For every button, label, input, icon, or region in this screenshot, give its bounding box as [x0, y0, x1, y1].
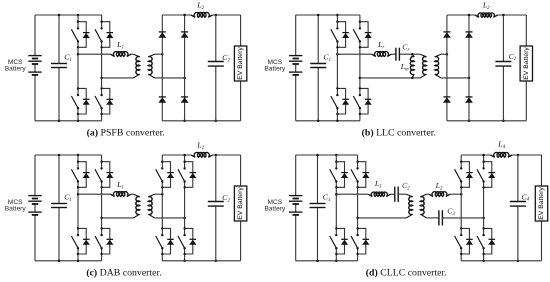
node (a) top rail junctions [58, 14, 80, 17]
node (b) rail junctions [317, 14, 339, 122]
node (c) leg1 midpoint [77, 193, 80, 196]
node (b) rectifier input nodes [446, 53, 471, 79]
label L1 (d) [374, 179, 382, 189]
capacitor C1 (c) [51, 155, 67, 261]
wire (c) top rail primary [35, 154, 102, 156]
switch (c) secondary leg1 bottom [156, 227, 174, 255]
diode (b) D3 [443, 97, 451, 103]
label C2 (d) [402, 181, 410, 191]
inductor L2 (c) [191, 152, 213, 157]
battery MCS (d) [289, 155, 302, 261]
node (a) leg1 midpoint [77, 53, 80, 56]
svg-text:Battery: Battery [264, 206, 286, 213]
node (d) rail junctions [316, 154, 337, 262]
label L2 (b) [482, 0, 490, 10]
switch (a) leg2 bottom [95, 87, 113, 115]
caption (d) [366, 268, 447, 279]
label MCS Battery (c) [5, 199, 27, 213]
diode (b) D2 [465, 32, 473, 38]
wire (b) leg1 [336, 15, 338, 121]
wire (a) top rail secondary [162, 14, 240, 16]
wire (b) leg2 [359, 15, 361, 121]
wire (b) Cr to transformer [399, 53, 420, 55]
wire (b) diode leg1 [446, 15, 448, 121]
wire (d) C3 to bridge [442, 217, 483, 219]
transformer T1 (a) primary winding [134, 54, 140, 78]
svg-text:(c) DAB converter.: (c) DAB converter. [86, 268, 161, 279]
label Cr (b) [402, 42, 409, 52]
wire (b) tank bottom lead [360, 77, 420, 79]
svg-text:EV Battery: EV Battery [237, 187, 244, 220]
capacitor C1 (a) [51, 15, 67, 121]
wire (d) Lr2 to bridge [450, 193, 461, 195]
node (b) Lm junctions [411, 53, 414, 79]
label MCS Battery (b) [264, 59, 286, 73]
inductor Lm (b) [410, 54, 414, 78]
wire (c) secondary bottom lead [155, 217, 185, 219]
svg-text:EV Battery: EV Battery [523, 47, 530, 80]
switch (b) leg1 bottom [331, 87, 349, 115]
node (c) secondary rail junctions [183, 154, 217, 262]
wire (a) diode leg1 [161, 15, 163, 121]
switch (d) secondary leg2 top [477, 161, 495, 189]
label C2 (a) [222, 53, 230, 63]
EV battery box (a) [234, 46, 246, 81]
wire (a) L1 to transformer [131, 53, 134, 55]
wire (a) secondary top lead [155, 53, 163, 55]
switch (c) primary leg2 top [95, 161, 113, 189]
wire (a) leg2 [101, 15, 103, 121]
transformer T1 (b) secondary winding [435, 54, 441, 78]
label L1 (c) [116, 180, 124, 190]
node (a) rectifier input nodes [161, 53, 186, 79]
wire (b) right rail [525, 15, 527, 121]
switch (d) secondary leg1 bottom [455, 227, 473, 255]
svg-text:EV Battery: EV Battery [538, 187, 545, 220]
wire (a) bottom rail secondary [162, 120, 240, 122]
capacitor C2 series (d) [395, 187, 398, 202]
wire (d) Lr1 to Cr1 [391, 193, 395, 195]
node (b) leg2 midpoint [359, 77, 362, 80]
node (a) secondary rail junctions [183, 14, 217, 122]
label C1 (d) [323, 193, 331, 203]
wire (c) top rail secondary [162, 154, 240, 156]
wire (d) top rail primary [296, 154, 358, 156]
wire (a) bottom rail primary [35, 120, 102, 122]
capacitor C2 (b) [495, 15, 511, 121]
node (d) leg2 midpoint [356, 217, 359, 220]
wire (d) primary leg2 [357, 155, 359, 261]
wire (b) top rail primary [296, 14, 360, 16]
wire (c) primary leg2 [101, 155, 103, 261]
switch (b) leg2 top [353, 21, 371, 49]
node (d) secondary bridge input nodes [460, 193, 485, 219]
svg-text:(a) PSFB converter.: (a) PSFB converter. [87, 127, 165, 138]
switch (c) secondary leg2 top [178, 161, 196, 189]
wire (d) bottom rail primary [296, 260, 358, 262]
wire (b) diode leg2 [468, 15, 470, 121]
wire (d) secondary top lead [427, 193, 429, 195]
node (b) secondary rail junctions [468, 14, 505, 122]
wire (b) bottom rail secondary [447, 120, 526, 122]
wire (b) secondary bottom lead [441, 77, 469, 79]
wire (b) Lr to Cr [391, 53, 396, 55]
wire (d) Cr1 to transformer [398, 193, 406, 195]
capacitor C1 (b) [310, 15, 326, 121]
inductor Lr2 (d) [429, 192, 450, 197]
switch (a) leg1 bottom [71, 87, 89, 115]
wire (a) bridge output top [78, 53, 110, 55]
caption (a) [87, 127, 165, 138]
node (c) leg2 midpoint [100, 217, 103, 220]
wire (c) bridge output top [78, 193, 110, 195]
switch (c) primary leg2 bottom [95, 227, 113, 255]
capacitor C2 (c) [208, 155, 224, 261]
svg-text:Battery: Battery [264, 66, 286, 73]
switch (a) leg2 top [95, 21, 113, 49]
wire (d) bottom rail secondary [461, 260, 541, 262]
label C2 (b) [509, 52, 517, 62]
EV battery box (d) [535, 186, 547, 221]
transformer T1 (b) primary winding [420, 54, 426, 78]
switch (b) leg1 top [331, 21, 349, 49]
wire (b) tank top lead [337, 53, 371, 55]
diode (b) D1 [443, 32, 451, 38]
label C1 (c) [64, 193, 72, 203]
wire (b) secondary top lead [441, 53, 447, 55]
inductor L2 (b) [475, 13, 498, 17]
inductor Lr1 (d) [368, 192, 390, 196]
svg-text:(d) CLLC converter.: (d) CLLC converter. [366, 268, 447, 279]
switch (d) secondary leg2 bottom [477, 227, 495, 255]
wire (d) secondary leg2 [483, 155, 485, 261]
wire (a) leg1 [77, 15, 79, 121]
transformer T1 (d) primary winding [406, 194, 412, 218]
node (c) rail junctions [58, 154, 80, 262]
node (d) leg1 midpoint [335, 193, 338, 196]
svg-text:(b) LLC converter.: (b) LLC converter. [362, 127, 436, 138]
node (d) secondary rail junctions [482, 154, 519, 262]
capacitor C4 (d) [510, 155, 526, 261]
node (a) leg2 midpoint [100, 77, 103, 80]
switch (d) primary leg2 top [351, 161, 369, 189]
switch (d) secondary leg1 top [455, 161, 473, 189]
wire (c) secondary leg2 [184, 155, 186, 261]
transformer T1 (c) primary winding [134, 194, 140, 218]
label MCS Battery (a) [5, 59, 27, 73]
switch (c) primary leg1 bottom [71, 227, 89, 255]
battery MCS (a) [28, 15, 41, 121]
wire (a) top rail primary [35, 14, 102, 16]
switch (c) secondary leg2 bottom [178, 227, 196, 255]
wire (d) right rail [541, 155, 543, 261]
transformer T1 (d) secondary winding [420, 194, 426, 218]
svg-text:Battery: Battery [5, 66, 27, 73]
label Lr (b) [377, 40, 384, 50]
wire (d) top rail secondary [461, 154, 541, 156]
label MCS Battery (d) [264, 199, 286, 213]
caption (b) [362, 127, 436, 138]
inductor L2 (a) [191, 12, 213, 17]
node (b) leg1 midpoint [336, 53, 339, 56]
label C4 (d) [522, 192, 530, 202]
wire (c) bottom rail secondary [162, 260, 240, 262]
wire (b) bottom rail primary [296, 120, 360, 122]
wire (d) tank top lead [336, 193, 368, 195]
transformer T1 (c) secondary winding [148, 194, 154, 218]
wire (c) secondary top lead [155, 193, 163, 195]
wire (c) secondary leg1 [161, 155, 163, 261]
switch (b) leg2 bottom [353, 87, 371, 115]
inductor L4 (d) [491, 152, 512, 157]
label L2 (a) [196, 0, 204, 10]
diode (a) D4 [181, 97, 189, 103]
diode (a) D3 [158, 97, 166, 103]
wire (c) L1 to transformer [131, 193, 134, 195]
wire (c) bottom rail primary [35, 260, 102, 262]
label C1 (a) [64, 53, 72, 63]
label C1 (b) [323, 53, 331, 63]
inductor Lr (b) [372, 52, 392, 57]
wire (c) right rail [240, 155, 242, 261]
wire (a) diode leg2 [184, 15, 186, 121]
battery MCS (b) [289, 15, 302, 121]
battery MCS (c) [28, 155, 41, 261]
capacitor C1 (d) [310, 155, 326, 261]
caption (c) [86, 268, 161, 279]
label L2 (d) [435, 181, 443, 191]
diode (b) D4 [465, 97, 473, 103]
wire (d) secondary bottom lead [427, 217, 439, 219]
EV battery box (c) [234, 186, 246, 221]
label Lm (b) [400, 62, 409, 72]
wire (a) right rail [240, 15, 242, 121]
wire (d) tank bottom lead [358, 217, 407, 219]
node (c) secondary bridge input nodes [161, 193, 186, 219]
svg-text:EV Battery: EV Battery [237, 47, 244, 80]
wire (c) primary leg1 [77, 155, 79, 261]
diode (a) D1 [158, 32, 166, 38]
switch (a) leg1 top [71, 21, 89, 49]
label L4 (d) [497, 140, 505, 150]
label C2 (c) [222, 193, 230, 203]
svg-text:Battery: Battery [5, 206, 27, 213]
switch (c) secondary leg1 top [156, 161, 174, 189]
inductor L1 (a) [110, 52, 131, 57]
node (a) bottom rail junctions [58, 120, 80, 123]
capacitor Cr (b) [396, 48, 400, 61]
diode (a) D2 [181, 32, 189, 38]
capacitor C2 (a) [208, 15, 224, 121]
inductor L1 (c) [110, 192, 131, 197]
label L2 (c) [196, 140, 204, 150]
capacitor C3 series (d) [439, 210, 443, 225]
wire (b) top rail secondary [447, 14, 526, 16]
label L1 (a) [116, 40, 124, 50]
label C3 (d) [447, 207, 455, 217]
switch (d) primary leg1 top [330, 161, 348, 189]
wire (a) secondary bottom lead [155, 77, 185, 79]
switch (c) primary leg1 top [71, 161, 89, 189]
switch (d) primary leg2 bottom [351, 227, 369, 255]
wire (c) bridge output bottom [102, 217, 134, 219]
switch (d) primary leg1 bottom [330, 227, 348, 255]
EV battery box (b) [520, 46, 532, 81]
wire (a) bridge output bottom [102, 77, 134, 79]
wire (d) secondary leg1 [460, 155, 462, 261]
wire (d) primary leg1 [335, 155, 337, 261]
transformer T1 (a) secondary winding [148, 54, 154, 78]
